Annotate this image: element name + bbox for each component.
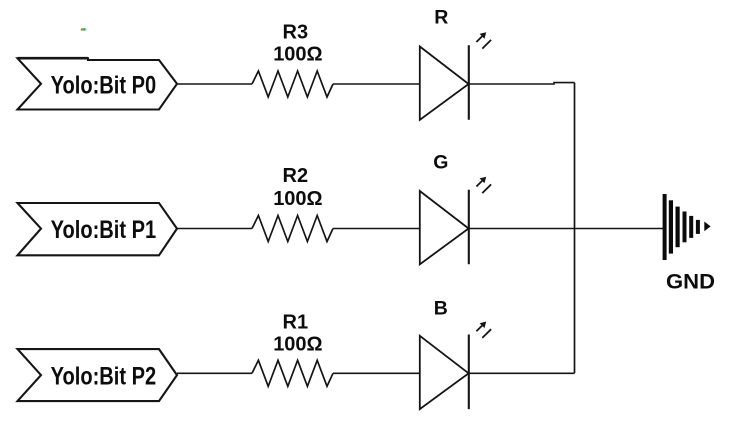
svg-text:R2: R2 bbox=[283, 165, 309, 187]
wire LED R to bus corner bbox=[469, 83, 575, 84]
LED B bbox=[420, 322, 491, 410]
pin label Yolo:Bit P1 bbox=[18, 203, 178, 255]
svg-text:Yolo:Bit P1: Yolo:Bit P1 bbox=[51, 216, 157, 244]
svg-text:B: B bbox=[434, 297, 448, 319]
LED G bbox=[420, 177, 491, 265]
wire LED B to bus corner bbox=[469, 372, 575, 374]
artifact dot bbox=[81, 28, 87, 30]
svg-text:100Ω: 100Ω bbox=[273, 334, 322, 356]
wire R3 to LED R bbox=[333, 83, 420, 85]
svg-text:R: R bbox=[434, 7, 448, 29]
svg-text:Yolo:Bit P2: Yolo:Bit P2 bbox=[51, 363, 157, 391]
resistor R1 bbox=[252, 360, 333, 386]
svg-text:R3: R3 bbox=[283, 22, 309, 44]
LED R bbox=[420, 32, 491, 120]
wire P1 to R2 bbox=[177, 228, 252, 230]
wire P0 to R3 bbox=[177, 83, 252, 85]
wire R1 to LED B bbox=[333, 372, 420, 374]
ground GND bbox=[663, 194, 711, 260]
pin label Yolo:Bit P2 bbox=[18, 349, 178, 401]
wire LED G to GND bbox=[469, 228, 663, 230]
vertical bus wire bbox=[574, 83, 576, 374]
wire R2 to LED G bbox=[333, 228, 420, 230]
svg-text:R1: R1 bbox=[283, 312, 309, 334]
svg-text:100Ω: 100Ω bbox=[273, 188, 322, 210]
resistor R2 bbox=[252, 216, 333, 242]
pin label Yolo:Bit P0 bbox=[18, 58, 178, 109]
svg-text:100Ω: 100Ω bbox=[273, 44, 322, 66]
svg-text:Yolo:Bit P0: Yolo:Bit P0 bbox=[51, 71, 157, 99]
svg-text:G: G bbox=[433, 152, 448, 174]
resistor R3 bbox=[252, 71, 333, 97]
svg-text:GND: GND bbox=[666, 269, 715, 293]
wire P2 to R1 bbox=[177, 372, 252, 374]
